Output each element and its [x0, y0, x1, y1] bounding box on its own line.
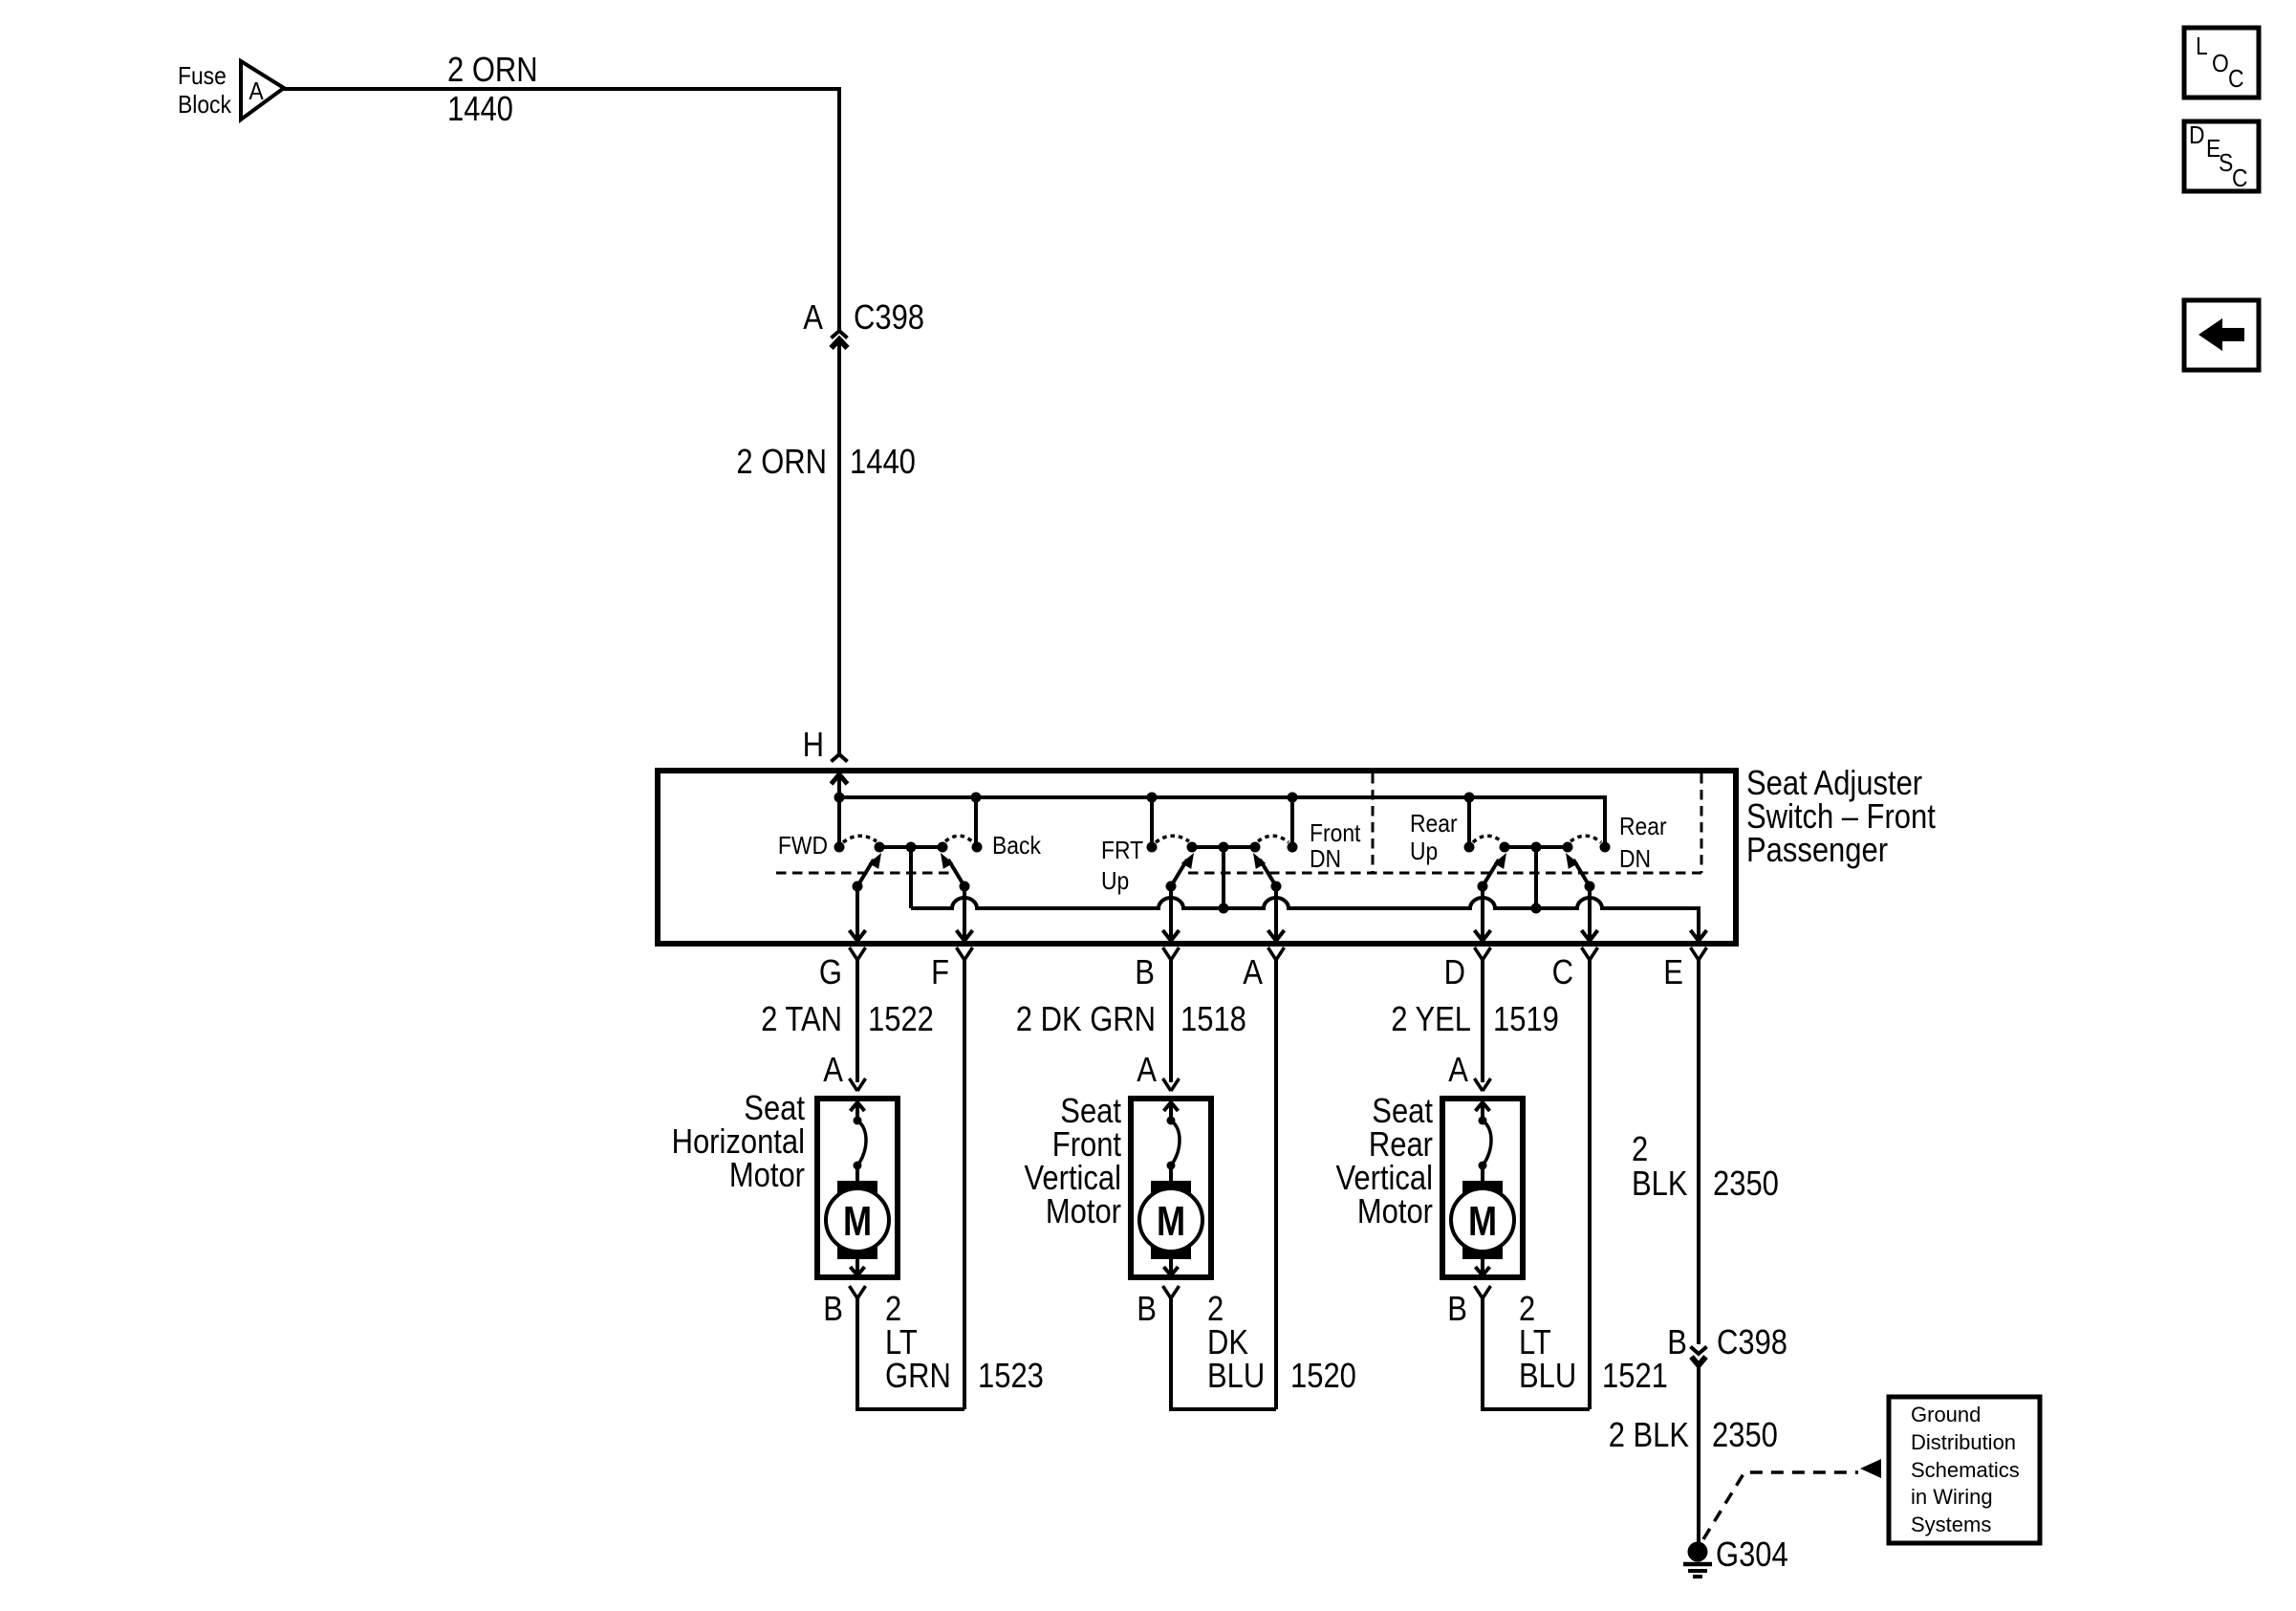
- svg-text:S: S: [2219, 148, 2233, 177]
- svg-text:DN: DN: [1619, 844, 1651, 873]
- svg-text:A: A: [1243, 952, 1263, 991]
- wire: vertical feed down to connector C398: [837, 87, 841, 332]
- svg-text:Passenger: Passenger: [1746, 830, 1888, 869]
- switch pin D terminal: [1475, 947, 1491, 960]
- seat rear vertical motor pin B terminal: [1475, 1286, 1491, 1298]
- svg-text:C398: C398: [854, 297, 924, 337]
- wire: pin C return: [1588, 960, 1592, 1409]
- svg-text:DN: DN: [1310, 844, 1341, 873]
- seat horizontal motor pin B terminal: [850, 1286, 866, 1298]
- svg-text:BLU: BLU: [1207, 1356, 1265, 1395]
- fuse block terminal A (triangle): [241, 61, 284, 120]
- svg-text:C: C: [1552, 952, 1573, 991]
- switch pole contacts: [853, 882, 863, 892]
- switch pin E terminal: [1691, 947, 1707, 960]
- wire: C398 to ground G304: [1697, 1363, 1700, 1543]
- svg-text:A: A: [249, 76, 264, 105]
- svg-text:A: A: [1137, 1050, 1157, 1089]
- seat front vertical switch (FRT Up/Front DN): [1147, 842, 1158, 853]
- svg-text:Fuse: Fuse: [178, 61, 227, 90]
- svg-text:C398: C398: [1717, 1322, 1787, 1361]
- switch pole contacts: [1478, 882, 1488, 892]
- svg-text:Up: Up: [1101, 866, 1129, 895]
- svg-text:1519: 1519: [1493, 999, 1559, 1038]
- svg-text:Schematics: Schematics: [1911, 1458, 2020, 1482]
- svg-text:2350: 2350: [1712, 1415, 1778, 1454]
- switch output wires to pins: [856, 886, 859, 939]
- LOC nav icon: [2184, 28, 2259, 98]
- svg-text:B: B: [823, 1289, 843, 1328]
- svg-text:2 ORN: 2 ORN: [736, 442, 827, 481]
- svg-text:Up: Up: [1410, 837, 1438, 865]
- wire: pin B to motor (2 DK GRN 1518): [1169, 960, 1173, 1082]
- ground distribution reference box: [1889, 1397, 2040, 1543]
- svg-text:FRT: FRT: [1101, 836, 1143, 864]
- svg-text:1520: 1520: [1290, 1356, 1356, 1395]
- svg-text:O: O: [2212, 49, 2229, 77]
- svg-text:Motor: Motor: [729, 1155, 805, 1194]
- svg-text:GRN: GRN: [885, 1356, 951, 1395]
- svg-text:M: M: [843, 1198, 872, 1245]
- svg-text:Systems: Systems: [1911, 1513, 1991, 1536]
- bus drop wires to switch contacts: [974, 797, 978, 847]
- svg-text:M: M: [1468, 1198, 1497, 1245]
- internal feed bus wire: [839, 797, 1605, 847]
- switch pin G terminal: [850, 947, 866, 960]
- svg-text:2: 2: [1632, 1129, 1648, 1168]
- svg-text:2 TAN: 2 TAN: [761, 999, 842, 1038]
- svg-text:1518: 1518: [1180, 999, 1246, 1038]
- svg-text:D: D: [2189, 120, 2205, 149]
- svg-text:B: B: [1135, 952, 1155, 991]
- switch pole contacts: [1166, 882, 1177, 892]
- svg-text:1522: 1522: [868, 999, 934, 1038]
- svg-text:Rear: Rear: [1410, 809, 1458, 838]
- wire: pin D to motor (2 YEL 1519): [1481, 960, 1484, 1082]
- svg-text:Ground: Ground: [1911, 1403, 1981, 1426]
- svg-text:Motor: Motor: [1046, 1191, 1121, 1230]
- switch output wires to pins: [1169, 886, 1173, 939]
- svg-text:1440: 1440: [850, 442, 916, 481]
- internal return wire to pin E (with wire hops): [911, 898, 1699, 939]
- seat front vertical motor (component box): [1131, 1099, 1211, 1277]
- bus junctions: [834, 793, 845, 803]
- svg-text:Front: Front: [1310, 818, 1361, 847]
- svg-text:Rear: Rear: [1619, 812, 1667, 840]
- svg-text:L: L: [2196, 32, 2208, 60]
- svg-text:M: M: [1157, 1198, 1185, 1245]
- svg-text:G304: G304: [1716, 1535, 1788, 1574]
- svg-text:in Wiring: in Wiring: [1911, 1485, 1993, 1509]
- seat rear vertical motor internals: brush and armature: [1476, 1102, 1490, 1111]
- connector C398 pin A (in-line connector symbol): [832, 331, 848, 338]
- svg-text:2350: 2350: [1713, 1164, 1779, 1203]
- svg-text:Motor: Motor: [1357, 1191, 1433, 1230]
- wire: pin A return: [1274, 960, 1278, 1409]
- switch pin B terminal: [1163, 947, 1180, 960]
- seat rear vertical switch (Rear Up/Rear DN): [1464, 842, 1475, 853]
- feed entering switch (arrow into box): [832, 774, 848, 784]
- wire: pin G to motor (2 TAN 1522): [856, 960, 859, 1082]
- seat horizontal switch (FWD/Back): [834, 842, 845, 853]
- svg-text:BLK: BLK: [1632, 1164, 1688, 1203]
- svg-text:Block: Block: [178, 90, 232, 119]
- dashed off-page reference wire: [1703, 1472, 1858, 1539]
- svg-text:G: G: [819, 952, 842, 991]
- svg-text:B: B: [1447, 1289, 1467, 1328]
- svg-text:H: H: [803, 725, 824, 764]
- svg-text:B: B: [1667, 1322, 1687, 1361]
- svg-text:2 DK GRN: 2 DK GRN: [1016, 999, 1156, 1038]
- wire: pin F return: [963, 960, 966, 1409]
- switch pin A terminal: [1268, 947, 1285, 960]
- svg-text:2 YEL: 2 YEL: [1391, 999, 1471, 1038]
- svg-text:1440: 1440: [447, 89, 513, 128]
- seat adjuster switch - front passenger (component box): [658, 771, 1736, 944]
- off-page reference arrowhead: [1860, 1459, 1881, 1478]
- svg-text:A: A: [1448, 1050, 1468, 1089]
- switch pin F terminal: [957, 947, 973, 960]
- svg-text:F: F: [931, 952, 949, 991]
- seat front vertical motor pin B terminal: [1163, 1286, 1180, 1298]
- switch internal dashed detent boundary: [776, 872, 958, 875]
- seat front vertical motor internals: brush and armature: [1164, 1102, 1179, 1111]
- svg-text:FWD: FWD: [778, 831, 828, 860]
- svg-text:2 ORN: 2 ORN: [447, 50, 538, 89]
- switch output wires to pins: [1481, 886, 1484, 939]
- DESC nav icon: [2184, 121, 2259, 191]
- svg-text:1521: 1521: [1602, 1356, 1668, 1395]
- wire: pin E ground wire (2 BLK 2350): [1697, 960, 1700, 1344]
- seat rear vertical motor (component box): [1442, 1099, 1523, 1277]
- back arrow nav icon: [2184, 300, 2259, 370]
- svg-text:A: A: [803, 297, 823, 337]
- svg-text:A: A: [823, 1050, 843, 1089]
- wire: motor pin B loop back: [1483, 1298, 1590, 1409]
- seat horizontal motor (component box): [817, 1099, 898, 1277]
- wire: motor pin B loop back: [1171, 1298, 1276, 1409]
- svg-text:E: E: [1663, 952, 1683, 991]
- svg-text:D: D: [1444, 952, 1465, 991]
- svg-text:2 BLK: 2 BLK: [1609, 1415, 1689, 1454]
- svg-text:C: C: [2232, 163, 2248, 192]
- wire: motor pin B loop back: [857, 1298, 964, 1409]
- switch pin C terminal: [1582, 947, 1598, 960]
- svg-text:BLU: BLU: [1519, 1356, 1576, 1395]
- svg-text:Distribution: Distribution: [1911, 1430, 2016, 1454]
- ground symbol G304: [1688, 1542, 1708, 1562]
- seat horizontal motor internals: brush and armature: [851, 1102, 865, 1111]
- wire: fuse block to corner, circuit 1440: [284, 87, 841, 91]
- svg-text:1523: 1523: [978, 1356, 1044, 1395]
- svg-text:Back: Back: [992, 831, 1042, 860]
- svg-text:B: B: [1137, 1289, 1157, 1328]
- svg-text:C: C: [2228, 64, 2244, 93]
